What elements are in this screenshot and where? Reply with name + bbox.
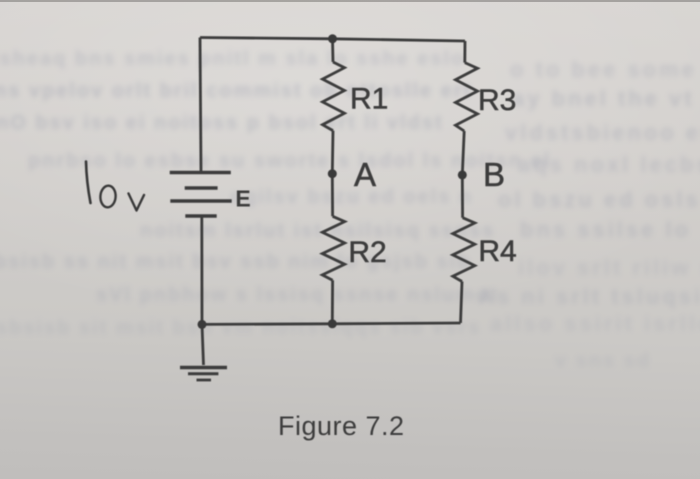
wire top to R1 [331,39,334,62]
wire R2 to bottom rail [331,280,334,324]
svg-text:Figure 7.2: Figure 7.2 [278,411,405,441]
wire ground stem [202,324,204,365]
wire battery bottom [200,218,203,325]
node bottom-left junction [198,320,207,329]
node bottom-middle junction [328,319,337,328]
handwritten 10V: letter V [129,194,145,211]
handwritten 10V: digit 0 [100,185,117,208]
wire R1 to node A [331,131,335,174]
wire node A to R2 [331,174,334,217]
svg-text:B: B [483,156,505,193]
battery E plate 1 (long) [170,171,231,174]
svg-text:R3: R3 [478,84,516,117]
ground bar 3 [197,379,212,382]
battery E plate 3 (long) [170,199,231,202]
battery E plate 2 (short) [185,186,218,189]
resistor R2 [322,216,344,280]
handwritten 10V: digit 1 [86,162,91,204]
svg-text:E: E [235,186,250,212]
node top junction [328,34,337,43]
svg-text:R1: R1 [350,83,388,116]
wire top rail [200,38,465,42]
ground bar 1 [180,366,227,369]
svg-text:A: A [354,156,376,193]
wire R4 to bottom rail [461,282,463,324]
resistor R4 [453,218,475,282]
svg-text:R4: R4 [478,235,516,268]
wire top to R3 [463,41,466,63]
wire bottom rail [202,323,461,324]
ghost show-through text lines [0,48,465,71]
ground bar 2 [188,372,218,375]
node A [328,169,337,178]
battery E plate 4 (short) [185,214,216,217]
svg-text:R2: R2 [348,236,386,269]
wire R3 to node B [462,131,464,175]
wire left (battery branch top) [200,38,201,172]
wire node B to R4 [461,175,464,218]
node B [458,170,467,179]
resistor R1 [323,62,345,131]
resistor R3 [456,63,478,131]
